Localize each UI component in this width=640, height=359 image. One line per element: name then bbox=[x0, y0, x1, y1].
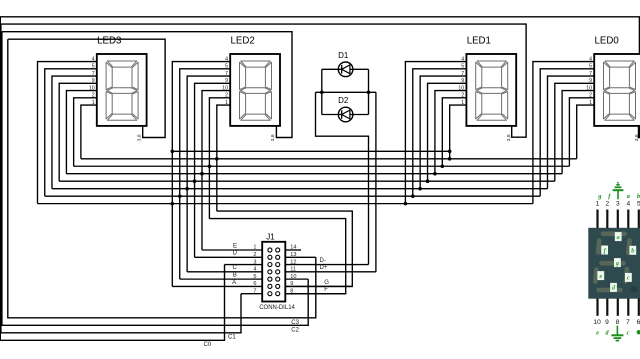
wire net C0 LED0 common stub bbox=[638, 126, 640, 138]
svg-text:2: 2 bbox=[589, 93, 592, 99]
ground symbol bottom on pin 8 bbox=[611, 326, 623, 341]
LED D2 bbox=[338, 96, 353, 122]
svg-text:c: c bbox=[627, 275, 630, 282]
ground symbol top (inverted) on pin 3 bbox=[613, 183, 624, 200]
svg-text:7: 7 bbox=[225, 71, 228, 77]
wire J1 pin 7 (net C1) bbox=[241, 293, 262, 295]
svg-text:7: 7 bbox=[589, 71, 592, 77]
wire LED3 pin 5 to bus k6 bbox=[45, 69, 97, 196]
svg-text:C1: C1 bbox=[228, 334, 236, 340]
svg-text:13: 13 bbox=[290, 252, 296, 258]
wire net D- to J1 pin 12 bbox=[316, 92, 369, 264]
svg-text:9: 9 bbox=[92, 78, 95, 84]
wire LED3 pin 10 to bus k3 bbox=[66, 91, 96, 174]
svg-text:3,8: 3,8 bbox=[634, 134, 640, 141]
wire LED cross stub bbox=[316, 91, 376, 93]
svg-text:c: c bbox=[627, 329, 630, 336]
svg-text:7: 7 bbox=[461, 71, 464, 77]
wire LED1 pin 2 to bus k2 bbox=[442, 98, 466, 166]
wire segment bus k9 (net F) to J1 pin 8 bbox=[209, 219, 345, 294]
svg-text:e: e bbox=[596, 329, 599, 336]
connector J1 CONN-DIL14 bbox=[253, 232, 296, 310]
svg-text:7: 7 bbox=[626, 319, 630, 326]
svg-text:12: 12 bbox=[290, 259, 296, 265]
wire net C1 top line to LED1 common bbox=[1, 24, 526, 137]
svg-text:9: 9 bbox=[290, 281, 293, 287]
wire LED1 pin 1 to bus k1 bbox=[450, 105, 467, 159]
segment label chip c bbox=[625, 273, 632, 282]
wire LED3 pin 7 to bus k5 bbox=[52, 76, 97, 189]
wire net C2 top line to LED2 common bbox=[2, 32, 292, 138]
wire LED1 pin 4 to bus k7 bbox=[405, 62, 466, 204]
wire segment bus k8 (net G) to J1 pin 9 bbox=[217, 211, 352, 286]
svg-text:1: 1 bbox=[92, 100, 95, 106]
svg-text:2: 2 bbox=[92, 93, 95, 99]
segment label chip f bbox=[601, 246, 608, 255]
svg-text:1: 1 bbox=[596, 201, 600, 208]
svg-text:D-: D- bbox=[320, 258, 326, 264]
svg-text:CONN-DIL14: CONN-DIL14 bbox=[259, 305, 295, 311]
wire LED3 pin 9 to bus k4 bbox=[59, 83, 97, 181]
svg-text:4: 4 bbox=[253, 267, 256, 273]
svg-text:D2: D2 bbox=[338, 96, 349, 105]
svg-text:4: 4 bbox=[626, 201, 630, 208]
svg-text:LED0: LED0 bbox=[595, 36, 620, 47]
svg-text:6: 6 bbox=[253, 281, 256, 287]
svg-text:4: 4 bbox=[461, 56, 464, 62]
svg-text:3: 3 bbox=[253, 259, 256, 265]
svg-text:2: 2 bbox=[225, 93, 228, 99]
wire J1 pin 5 (net B) from LED2 pin 5 vertical bbox=[180, 278, 262, 280]
7-segment display package preview (green) bbox=[588, 183, 640, 341]
svg-text:2: 2 bbox=[605, 201, 609, 208]
svg-text:C3: C3 bbox=[291, 320, 299, 326]
svg-text:3,8: 3,8 bbox=[137, 134, 143, 141]
wire LED0 pin 9 to bus k4 bbox=[555, 83, 594, 181]
wire segment bus k6 bbox=[45, 195, 540, 197]
svg-text:D1: D1 bbox=[338, 51, 349, 60]
svg-text:10: 10 bbox=[586, 85, 592, 91]
svg-text:10: 10 bbox=[89, 85, 95, 91]
svg-text:10: 10 bbox=[458, 85, 464, 91]
wire LED1 pin 7 to bus k5 bbox=[420, 76, 466, 189]
wire LED1 pin 9 to bus k4 bbox=[428, 83, 467, 181]
7-segment display LED2 bbox=[222, 36, 280, 142]
svg-text:9: 9 bbox=[605, 319, 609, 326]
svg-text:8: 8 bbox=[616, 319, 620, 326]
svg-text:4: 4 bbox=[589, 56, 592, 62]
wire LED2 pin 1 vertical bbox=[217, 105, 230, 211]
svg-text:C: C bbox=[232, 265, 237, 271]
wire net C0 top line bbox=[0, 17, 639, 138]
svg-text:5: 5 bbox=[225, 64, 228, 70]
LED D1 bbox=[338, 51, 353, 77]
wire segment bus k2 bbox=[74, 165, 570, 167]
svg-text:e: e bbox=[599, 273, 602, 280]
wire LED3 pin 2 to bus k2 bbox=[74, 98, 97, 166]
svg-text:10: 10 bbox=[222, 85, 228, 91]
svg-text:8: 8 bbox=[290, 288, 293, 294]
wire LED2 pin 9 vertical bbox=[195, 83, 231, 257]
svg-text:G: G bbox=[324, 280, 329, 286]
wire J1 pin 2 (net D) from LED2 pin 9 vertical bbox=[195, 256, 263, 258]
svg-text:1: 1 bbox=[461, 100, 464, 106]
wire net C1 left edge vertical bbox=[1, 24, 241, 333]
svg-text:9: 9 bbox=[589, 78, 592, 84]
svg-text:9: 9 bbox=[225, 78, 228, 84]
wire LED2 pin 5 vertical bbox=[180, 69, 230, 279]
wire net C3 top line to LED3 common bbox=[8, 39, 165, 137]
wire J1 pin 9 (net G) bbox=[285, 285, 352, 287]
svg-text:C0: C0 bbox=[204, 342, 212, 348]
wire J1 pin 6 (net A) from LED2 pin 4 vertical bbox=[172, 285, 262, 287]
wire LED3 pin 4 to bus k7 bbox=[38, 62, 97, 204]
wire J1 pin 11 (net D+) bbox=[285, 271, 376, 273]
segment label chip d bbox=[610, 283, 617, 292]
wire LED2 pin 7 vertical bbox=[187, 76, 230, 272]
segment label chip e bbox=[597, 271, 604, 280]
svg-text:7: 7 bbox=[253, 288, 256, 294]
wire J1 pin 3 (net C0) bbox=[225, 264, 263, 266]
svg-text:10: 10 bbox=[593, 319, 601, 326]
svg-text:4: 4 bbox=[92, 56, 95, 62]
svg-text:6: 6 bbox=[637, 319, 640, 326]
wire J1 pin 4 (net C) from LED2 pin 7 vertical bbox=[187, 271, 262, 273]
svg-text:2: 2 bbox=[253, 252, 256, 258]
wire LED2 pin 10 vertical bbox=[202, 91, 230, 250]
wire J1 pin 1 (net E) from LED2 pin 10 vertical bbox=[202, 249, 262, 251]
wire net D+ to J1 pin 11 bbox=[375, 92, 377, 272]
svg-text:LED3: LED3 bbox=[97, 36, 121, 47]
wire J1 pin 12 (net D-) bbox=[285, 264, 368, 266]
wire segment bus k5 bbox=[52, 188, 548, 190]
svg-text:g: g bbox=[615, 260, 619, 267]
svg-text:F: F bbox=[324, 287, 328, 293]
wire D1 anode/cathode horizontal bbox=[322, 68, 369, 70]
svg-text:7: 7 bbox=[92, 71, 95, 77]
wire LED1 pin 5 to bus k6 bbox=[413, 69, 467, 196]
svg-text:E: E bbox=[233, 243, 237, 249]
7-segment display LED1 bbox=[458, 36, 516, 142]
7-segment display LED0 bbox=[586, 36, 640, 142]
svg-text:3,8: 3,8 bbox=[506, 134, 512, 141]
svg-text:3: 3 bbox=[616, 201, 620, 208]
svg-text:a: a bbox=[617, 234, 620, 241]
svg-text:1: 1 bbox=[589, 100, 592, 106]
svg-text:D: D bbox=[233, 251, 238, 257]
wire LED3 pin 1 to bus k1 bbox=[81, 105, 97, 159]
svg-text:b: b bbox=[631, 248, 634, 255]
wire LED2 pin 2 vertical bbox=[209, 98, 230, 219]
wire LED0 pin 1 to bus k1 bbox=[577, 105, 595, 159]
svg-text:2: 2 bbox=[461, 93, 464, 99]
svg-text:9: 9 bbox=[461, 78, 464, 84]
wire LED0 pin 10 to bus k3 bbox=[562, 91, 594, 174]
svg-text:5: 5 bbox=[589, 64, 592, 70]
junction dots LED2 verticals on buses bbox=[171, 91, 452, 206]
wire net C2 left edge vertical bbox=[2, 32, 308, 326]
svg-text:LED1: LED1 bbox=[467, 36, 491, 47]
svg-text:1: 1 bbox=[225, 100, 228, 106]
svg-text:B: B bbox=[233, 273, 237, 279]
wire LED0 pin 7 to bus k5 bbox=[548, 76, 595, 189]
wire LED0 pin 5 to bus k6 bbox=[540, 69, 594, 196]
svg-text:11: 11 bbox=[290, 267, 296, 273]
svg-text:5: 5 bbox=[253, 274, 256, 280]
segment label chip b bbox=[629, 246, 636, 255]
svg-text:C2: C2 bbox=[291, 328, 299, 334]
wire segment bus k0 bbox=[172, 150, 449, 152]
segment label chip a bbox=[615, 232, 622, 241]
wire J1 pin 10 (net C2) bbox=[285, 278, 308, 280]
svg-text:5: 5 bbox=[92, 64, 95, 70]
svg-text:A: A bbox=[232, 280, 236, 286]
svg-text:J1: J1 bbox=[266, 232, 275, 241]
wire J1 pin 13 (net C3) bbox=[285, 256, 316, 258]
wire LED1 pin 10 to bus k3 bbox=[435, 91, 466, 174]
wire D2 horizontal bbox=[322, 114, 369, 116]
wire D1-D2 right rail bbox=[368, 69, 370, 114]
wire net C0 left edge vertical bbox=[0, 17, 224, 341]
segment label chip g bbox=[614, 258, 621, 267]
wire J1 pin 14 stub bbox=[285, 249, 301, 251]
wire LED2 pin 4 vertical bbox=[172, 62, 230, 287]
svg-text:10: 10 bbox=[290, 274, 296, 280]
7-segment display LED3 bbox=[89, 36, 147, 142]
svg-text:4: 4 bbox=[225, 56, 228, 62]
wire D1-D2 left rail bbox=[321, 69, 323, 114]
svg-text:D+: D+ bbox=[320, 265, 328, 271]
wire segment bus k1 bbox=[81, 158, 577, 160]
svg-text:LED2: LED2 bbox=[231, 36, 255, 47]
svg-text:1: 1 bbox=[253, 245, 256, 251]
svg-text:14: 14 bbox=[290, 245, 296, 251]
wire segment bus k4 bbox=[59, 180, 555, 182]
wire LED0 pin 4 to bus k7 bbox=[533, 62, 594, 204]
wire J1 pin 8 (net F) bbox=[285, 293, 345, 295]
wire segment bus k3 bbox=[66, 173, 562, 175]
wire net C3 left edge vertical bbox=[8, 39, 316, 318]
svg-text:3,8: 3,8 bbox=[270, 134, 276, 141]
wire segment bus k7 bbox=[38, 203, 533, 205]
svg-text:5: 5 bbox=[461, 64, 464, 70]
wire LED0 pin 2 to bus k2 bbox=[569, 98, 594, 166]
